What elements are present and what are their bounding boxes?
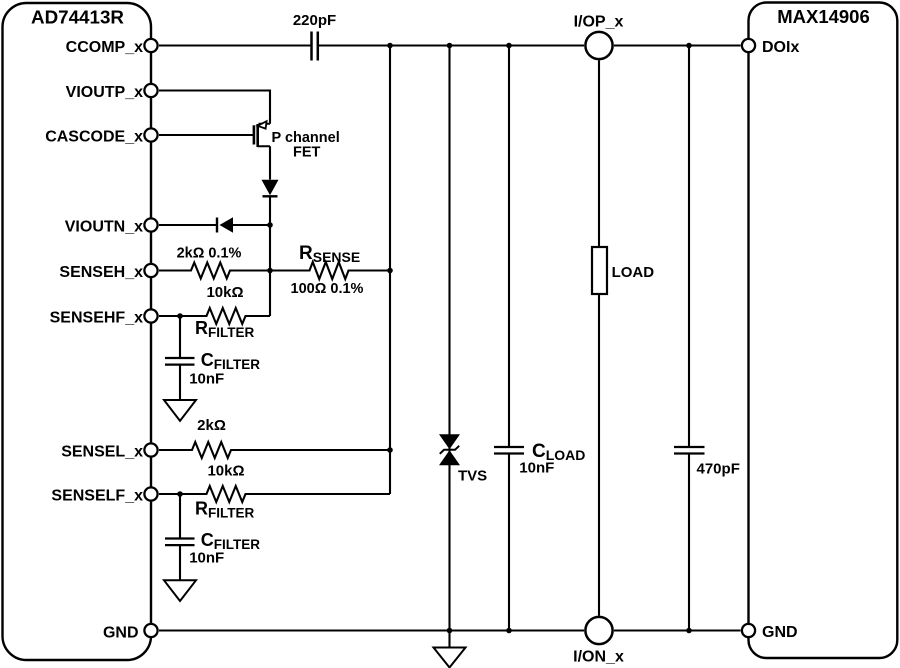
svg-text:RFILTER: RFILTER — [195, 498, 254, 520]
svg-text:CFILTER: CFILTER — [201, 350, 260, 372]
svg-text:RFILTER: RFILTER — [195, 318, 254, 340]
svg-text:MAX14906: MAX14906 — [777, 6, 870, 27]
svg-text:10nF: 10nF — [189, 550, 224, 567]
svg-text:RSENSE: RSENSE — [299, 243, 360, 265]
svg-text:AD74413R: AD74413R — [31, 7, 124, 28]
svg-text:10nF: 10nF — [189, 370, 224, 387]
svg-text:220pF: 220pF — [293, 12, 336, 29]
svg-text:LOAD: LOAD — [612, 264, 655, 281]
svg-text:SENSEL_x: SENSEL_x — [61, 444, 143, 461]
svg-text:2kΩ 0.1%: 2kΩ 0.1% — [177, 246, 242, 262]
svg-text:SENSEHF_x: SENSEHF_x — [50, 310, 143, 327]
svg-text:10kΩ: 10kΩ — [207, 462, 244, 479]
svg-text:GND: GND — [103, 625, 139, 642]
svg-text:TVS: TVS — [458, 468, 487, 485]
svg-text:FET: FET — [293, 145, 321, 161]
svg-text:DOIx: DOIx — [762, 39, 799, 56]
svg-text:10nF: 10nF — [519, 459, 554, 476]
svg-text:CCOMP_x: CCOMP_x — [66, 39, 143, 56]
svg-text:I/ON_x: I/ON_x — [573, 649, 624, 666]
svg-text:470pF: 470pF — [697, 461, 740, 478]
svg-text:SENSELF_x: SENSELF_x — [51, 488, 143, 505]
svg-text:10kΩ: 10kΩ — [206, 284, 243, 301]
svg-text:GND: GND — [762, 624, 798, 641]
svg-text:I/OP_x: I/OP_x — [574, 14, 624, 31]
svg-text:P channel: P channel — [272, 130, 340, 146]
svg-text:VIOUTN_x: VIOUTN_x — [65, 219, 143, 236]
svg-text:VIOUTP_x: VIOUTP_x — [66, 84, 143, 101]
svg-text:100Ω 0.1%: 100Ω 0.1% — [291, 281, 364, 297]
svg-text:SENSEH_x: SENSEH_x — [59, 264, 143, 281]
svg-text:CASCODE_x: CASCODE_x — [45, 129, 143, 146]
svg-text:2kΩ: 2kΩ — [197, 417, 226, 434]
